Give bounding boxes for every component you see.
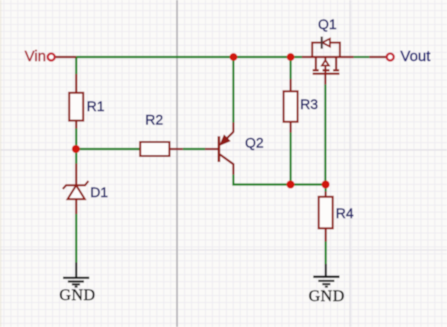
svg-text:GND: GND	[309, 288, 345, 305]
junction dot rail-emitter	[230, 53, 238, 61]
svg-text:Vout: Vout	[400, 48, 431, 65]
transistor Q2 (PNP)	[219, 132, 264, 175]
channel bar right	[333, 69, 339, 71]
channel main line	[302, 56, 354, 58]
junction dot bottom-R3	[287, 181, 295, 189]
svg-text:R3: R3	[300, 96, 318, 112]
source stub right	[335, 57, 337, 69]
wire R3 bottom to node B	[290, 133, 292, 185]
body arrow head	[322, 60, 329, 65]
svg-text:Q2: Q2	[245, 134, 264, 150]
pin R1 top	[75, 74, 77, 93]
pin R3 bottom	[290, 122, 292, 133]
resistor R1	[69, 93, 105, 121]
wire Q2 collector to bottom rail	[233, 175, 325, 185]
pin R1 bottom	[75, 121, 77, 129]
wire Q1 gate down to node B	[324, 84, 326, 184]
svg-text:R4: R4	[336, 205, 354, 221]
pin Vout port	[369, 56, 386, 58]
wire node A to R2	[76, 148, 140, 150]
pin R4 bottom	[325, 228, 327, 241]
wire R1 bottom to node A	[75, 129, 77, 150]
body arrow stub	[324, 57, 326, 61]
pin Vin port	[55, 56, 76, 58]
junction dot rail-R3	[287, 53, 295, 61]
svg-text:R1: R1	[87, 98, 105, 114]
wire D1 to ground	[75, 214, 77, 263]
transistor Q1 (P-MOSFET)	[302, 16, 354, 85]
pin Q2 emitter vertical	[232, 123, 234, 133]
port Vout	[387, 48, 432, 65]
port Vin	[25, 48, 55, 65]
wire R4 to ground	[325, 242, 327, 265]
pin D1 top	[75, 164, 77, 186]
ground left	[59, 263, 95, 305]
channel bar left	[313, 69, 319, 71]
pin Q2 base	[205, 148, 219, 150]
wire node B to R4	[325, 185, 327, 192]
svg-text:Vin: Vin	[25, 48, 46, 65]
pin D1 bottom	[75, 199, 77, 214]
wire Q2 emitter up to rail	[232, 57, 234, 123]
body diode loop	[312, 43, 340, 57]
svg-text:Q1: Q1	[318, 16, 337, 32]
node A dot (R1/R2/D1)	[72, 145, 80, 153]
svg-text:GND: GND	[59, 287, 95, 304]
svg-text:R2: R2	[145, 112, 163, 128]
resistor R2	[140, 112, 169, 156]
wire Q1 to Vout	[354, 56, 370, 58]
body diode triangle	[322, 39, 330, 47]
zener diode D1	[63, 181, 109, 200]
body diode cathode bar	[321, 37, 323, 49]
resistor R3	[284, 91, 319, 122]
pin R2 right	[169, 148, 183, 150]
pin R3 top	[290, 79, 292, 92]
drain stub left	[315, 57, 317, 69]
wire R2 to Q2 base	[183, 148, 205, 150]
wire Vin rail top	[76, 56, 302, 58]
ground right	[309, 264, 345, 305]
wire left branch down from rail	[75, 57, 77, 74]
gate plate	[313, 73, 340, 75]
node B dot (gate/R4)	[322, 181, 330, 189]
wire node A to D1	[75, 149, 77, 164]
svg-text:D1: D1	[90, 184, 108, 200]
wire R3 top	[290, 57, 292, 79]
channel bar center	[323, 69, 330, 71]
resistor R4	[319, 197, 354, 229]
body arrow shaft / gate lead	[324, 66, 326, 75]
pin R4 top	[325, 192, 327, 198]
